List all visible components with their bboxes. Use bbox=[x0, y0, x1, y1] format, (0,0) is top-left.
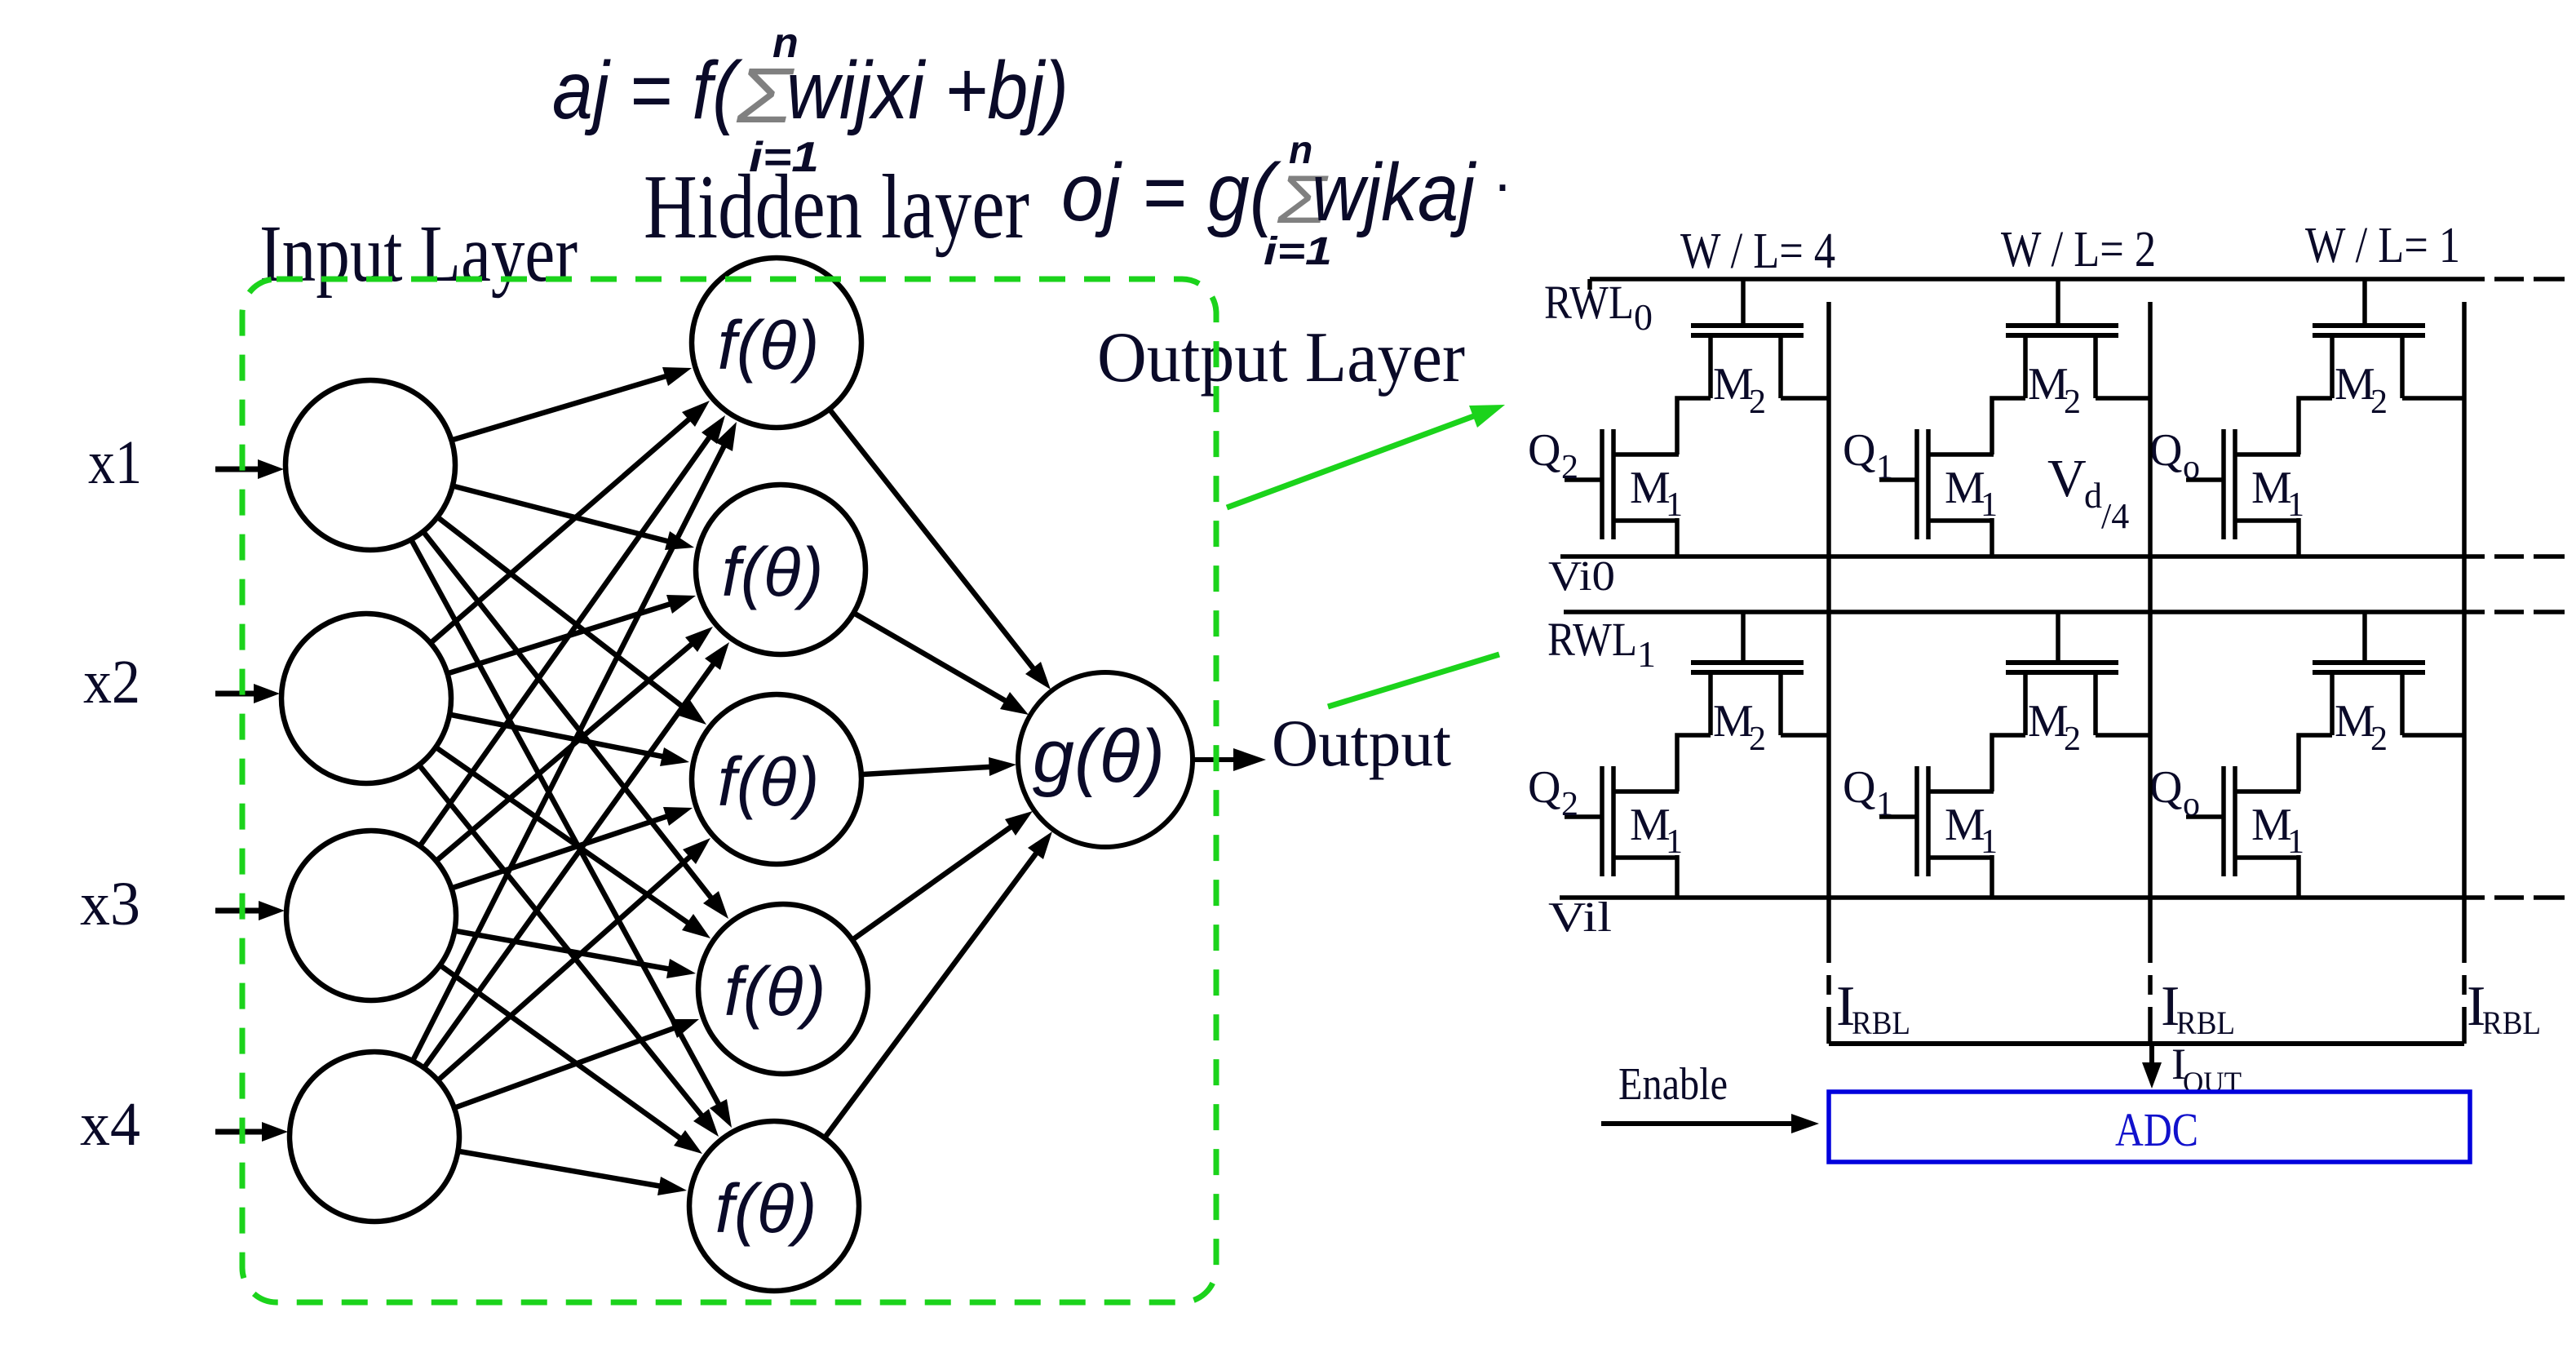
wire bbox=[1990, 518, 1994, 556]
svg-text:RBL: RBL bbox=[2482, 1004, 2541, 1041]
svg-text:1: 1 bbox=[1637, 633, 1656, 675]
svg-text:M: M bbox=[2251, 463, 2292, 513]
enable arrow bbox=[1601, 1114, 1819, 1133]
wire bbox=[425, 642, 729, 1066]
svg-text:1: 1 bbox=[1666, 823, 1683, 861]
svg-text:Output: Output bbox=[1272, 706, 1451, 780]
wire bbox=[825, 831, 1052, 1137]
hidden node 1 bbox=[692, 258, 861, 428]
svg-text:f(θ): f(θ) bbox=[718, 743, 820, 820]
svg-text:ADC: ADC bbox=[2115, 1103, 2198, 1156]
wire bbox=[855, 614, 1029, 715]
wire bbox=[414, 422, 737, 1059]
svg-text:RWL: RWL bbox=[1544, 276, 1634, 329]
label M2 row0 col0 bbox=[1713, 359, 1766, 421]
RBL line col2 bbox=[2462, 302, 2467, 1044]
svg-text:1: 1 bbox=[2287, 486, 2304, 524]
green line to RWL1 row bbox=[1328, 654, 1499, 707]
label Q1 row1 bbox=[1843, 762, 1893, 823]
wire bbox=[432, 401, 710, 642]
wire bbox=[1677, 735, 1711, 792]
wire bbox=[1992, 398, 2025, 455]
label M1 row0 col0 bbox=[1630, 463, 1683, 524]
label IRBL col0 bbox=[1836, 975, 1910, 1041]
RWL1 line bbox=[1564, 610, 2565, 614]
svg-text:x4: x4 bbox=[80, 1090, 140, 1159]
wire bbox=[1675, 518, 1680, 556]
label M1 row1 col0 bbox=[1630, 800, 1683, 861]
transistor M2 row0 col2 bbox=[2313, 279, 2425, 398]
wire bbox=[863, 757, 1016, 776]
svg-text:f(θ): f(θ) bbox=[722, 534, 824, 610]
IOUT arrow bbox=[2142, 1045, 2162, 1089]
wire bbox=[2296, 518, 2301, 556]
svg-text:RWL: RWL bbox=[1547, 613, 1637, 666]
svg-text:2: 2 bbox=[2370, 384, 2388, 421]
svg-text:Q: Q bbox=[1843, 425, 1875, 476]
svg-text:0: 0 bbox=[1634, 296, 1653, 338]
wire bbox=[437, 627, 713, 860]
svg-text:f(θ): f(θ) bbox=[718, 307, 820, 384]
label Q2 row0 bbox=[1528, 425, 1578, 486]
transistor M2 row0 col1 bbox=[2006, 279, 2118, 398]
svg-text:wjkaj: wjkaj bbox=[1312, 147, 1477, 238]
input node 4 bbox=[290, 1052, 459, 1222]
svg-text:f(θ): f(θ) bbox=[724, 953, 826, 1030]
input arrow x4 bbox=[215, 1122, 288, 1142]
output node g(theta) bbox=[1018, 672, 1193, 847]
svg-text:M: M bbox=[1630, 463, 1671, 513]
wire bbox=[1990, 855, 1994, 898]
wire bbox=[441, 966, 702, 1154]
wire bbox=[439, 838, 710, 1080]
transistor M2 row0 col0 bbox=[1691, 279, 1804, 398]
svg-text:2: 2 bbox=[1561, 786, 1578, 823]
svg-text:M: M bbox=[1713, 696, 1754, 747]
wire bbox=[456, 931, 696, 978]
svg-text:2: 2 bbox=[1749, 721, 1766, 758]
transistor M1 row1 col1 bbox=[1879, 766, 1994, 876]
transistor M1 row0 col1 bbox=[1879, 429, 1994, 539]
wire bbox=[853, 811, 1033, 939]
input arrow x1 bbox=[215, 459, 284, 479]
wire bbox=[2096, 733, 2150, 738]
svg-text:1: 1 bbox=[2287, 823, 2304, 861]
hidden node 2 bbox=[696, 485, 865, 654]
wire bbox=[424, 533, 728, 919]
svg-text:2: 2 bbox=[2370, 721, 2388, 758]
input node 1 bbox=[285, 380, 455, 550]
label M2 row1 col2 bbox=[2335, 696, 2388, 758]
wire bbox=[2299, 735, 2332, 792]
transistor M1 row0 col2 bbox=[2186, 429, 2300, 539]
svg-text:M: M bbox=[2251, 800, 2292, 850]
svg-text:M: M bbox=[1945, 800, 1985, 850]
wire bbox=[1992, 735, 2025, 792]
label IRBL col2 bbox=[2467, 975, 2541, 1041]
ADC block bbox=[1829, 1092, 2470, 1162]
wire bbox=[2096, 396, 2150, 401]
svg-text:W / L= 2: W / L= 2 bbox=[2001, 222, 2156, 277]
label M1 row1 col2 bbox=[2251, 800, 2304, 861]
svg-text:M: M bbox=[1713, 359, 1754, 410]
svg-text:M: M bbox=[1945, 463, 1985, 513]
svg-text:M: M bbox=[2335, 696, 2375, 747]
wire bbox=[439, 518, 706, 725]
Vi1 line bbox=[1560, 895, 2565, 900]
green dashed boundary box bbox=[242, 279, 1216, 1302]
svg-text:2: 2 bbox=[2064, 384, 2081, 421]
wire bbox=[1675, 855, 1680, 898]
svg-text:Hidden layer: Hidden layer bbox=[644, 157, 1029, 258]
wire bbox=[2402, 733, 2464, 738]
Vi0 line bbox=[1560, 554, 2565, 559]
transistor M2 row1 col0 bbox=[1691, 612, 1804, 735]
wire bbox=[1781, 733, 1829, 738]
RWL0 line bbox=[1590, 279, 2565, 290]
transistor M1 row0 col0 bbox=[1565, 429, 1679, 539]
svg-text:1: 1 bbox=[1981, 486, 1998, 524]
input arrow x2 bbox=[215, 684, 280, 703]
label Vd/4 bbox=[2047, 449, 2129, 536]
svg-text:Vil: Vil bbox=[1548, 894, 1612, 941]
wire bbox=[421, 415, 725, 845]
wire bbox=[456, 1019, 699, 1107]
transistor M2 row1 col1 bbox=[2006, 612, 2118, 735]
label Q1 row0 bbox=[1843, 425, 1893, 486]
green arrow to RWL0 row bbox=[1227, 405, 1505, 508]
hidden node 5 bbox=[689, 1121, 859, 1291]
svg-text:Q: Q bbox=[2149, 425, 2182, 476]
svg-text:Vi0: Vi0 bbox=[1548, 553, 1615, 600]
svg-text:x2: x2 bbox=[83, 648, 140, 716]
wire bbox=[2299, 398, 2332, 455]
wire bbox=[830, 410, 1051, 690]
transistor M2 row1 col2 bbox=[2313, 612, 2425, 735]
svg-text:/4: /4 bbox=[2101, 496, 2129, 536]
svg-text:RBL: RBL bbox=[2176, 1004, 2235, 1041]
input node 3 bbox=[286, 831, 456, 1000]
label Q2 row1 bbox=[1528, 762, 1578, 823]
label M2 row1 col1 bbox=[2028, 696, 2081, 758]
svg-text:n: n bbox=[1289, 129, 1312, 172]
wire bbox=[453, 367, 692, 440]
svg-text:f(θ): f(θ) bbox=[715, 1170, 817, 1247]
wire bbox=[454, 486, 694, 550]
svg-text:o: o bbox=[2183, 786, 2200, 823]
label M2 row1 col0 bbox=[1713, 696, 1766, 758]
svg-text:d: d bbox=[2084, 476, 2102, 516]
svg-text:M: M bbox=[2335, 359, 2375, 410]
svg-text:x1: x1 bbox=[88, 428, 142, 497]
RBL summing bus wire bbox=[1829, 1041, 2464, 1046]
wire bbox=[453, 807, 693, 888]
svg-text:·: · bbox=[1493, 152, 1512, 217]
wire bbox=[451, 715, 689, 766]
svg-text:2: 2 bbox=[2064, 721, 2081, 758]
wire bbox=[1781, 396, 1829, 401]
label M1 row1 col1 bbox=[1945, 800, 1998, 861]
wire bbox=[459, 1151, 687, 1195]
svg-text:g(θ): g(θ) bbox=[1033, 715, 1165, 798]
wire bbox=[412, 541, 732, 1128]
svg-text:Q: Q bbox=[1528, 762, 1560, 813]
output arrow bbox=[1193, 748, 1266, 771]
transistor M1 row1 col0 bbox=[1565, 766, 1679, 876]
input arrow x3 bbox=[215, 901, 285, 920]
svg-text:1: 1 bbox=[1981, 823, 1998, 861]
wire bbox=[1677, 398, 1711, 455]
svg-text:W / L= 4: W / L= 4 bbox=[1680, 224, 1835, 279]
svg-text:1: 1 bbox=[1666, 486, 1683, 524]
label M1 row0 col2 bbox=[2251, 463, 2304, 524]
wire bbox=[437, 748, 710, 938]
RBL line col1 bbox=[2148, 302, 2153, 1044]
svg-text:o: o bbox=[2183, 449, 2200, 486]
svg-text:wijxi +bj): wijxi +bj) bbox=[786, 45, 1069, 136]
svg-text:Q: Q bbox=[2149, 762, 2182, 813]
svg-text:1: 1 bbox=[1876, 449, 1893, 486]
svg-text:x3: x3 bbox=[80, 870, 140, 938]
label IRBL col1 bbox=[2161, 975, 2235, 1041]
svg-text:Q: Q bbox=[1528, 425, 1560, 476]
svg-text:RBL: RBL bbox=[1852, 1004, 1910, 1041]
svg-text:2: 2 bbox=[1561, 449, 1578, 486]
wire bbox=[2402, 396, 2464, 401]
hidden node 3 bbox=[692, 694, 861, 864]
svg-text:2: 2 bbox=[1749, 384, 1766, 421]
label Qo row1 bbox=[2149, 762, 2200, 823]
hidden node 4 bbox=[698, 904, 868, 1074]
input node 2 bbox=[281, 614, 451, 783]
svg-text:aj = f(: aj = f( bbox=[552, 45, 743, 136]
transistor M1 row1 col2 bbox=[2186, 766, 2300, 876]
svg-text:W / L= 1: W / L= 1 bbox=[2305, 218, 2460, 273]
RBL line col0 bbox=[1826, 302, 1831, 1044]
label M2 row0 col2 bbox=[2335, 359, 2388, 421]
label RWL1 bbox=[1547, 613, 1656, 675]
label RWL0 bbox=[1544, 276, 1653, 338]
svg-text:oj = g(: oj = g( bbox=[1061, 147, 1281, 238]
svg-text:M: M bbox=[1630, 800, 1671, 850]
svg-text:Input Layer: Input Layer bbox=[259, 208, 578, 299]
wire bbox=[420, 766, 719, 1137]
label IOUT bbox=[2171, 1040, 2242, 1098]
wire bbox=[2296, 855, 2301, 898]
svg-text:Output Layer: Output Layer bbox=[1097, 318, 1465, 397]
svg-text:Q: Q bbox=[1843, 762, 1875, 813]
svg-text:M: M bbox=[2028, 359, 2069, 410]
label Qo row0 bbox=[2149, 425, 2200, 486]
svg-text:Enable: Enable bbox=[1618, 1059, 1728, 1110]
label M1 row0 col1 bbox=[1945, 463, 1998, 524]
wire bbox=[449, 595, 696, 673]
svg-text:M: M bbox=[2028, 696, 2069, 747]
equation oj = g(sum wjk aj bbox=[1061, 129, 1512, 273]
equation aj = f(sum wij xi + bj) bbox=[552, 20, 1069, 181]
label M2 row0 col1 bbox=[2028, 359, 2081, 421]
svg-text:V: V bbox=[2047, 449, 2087, 508]
svg-text:1: 1 bbox=[1876, 786, 1893, 823]
